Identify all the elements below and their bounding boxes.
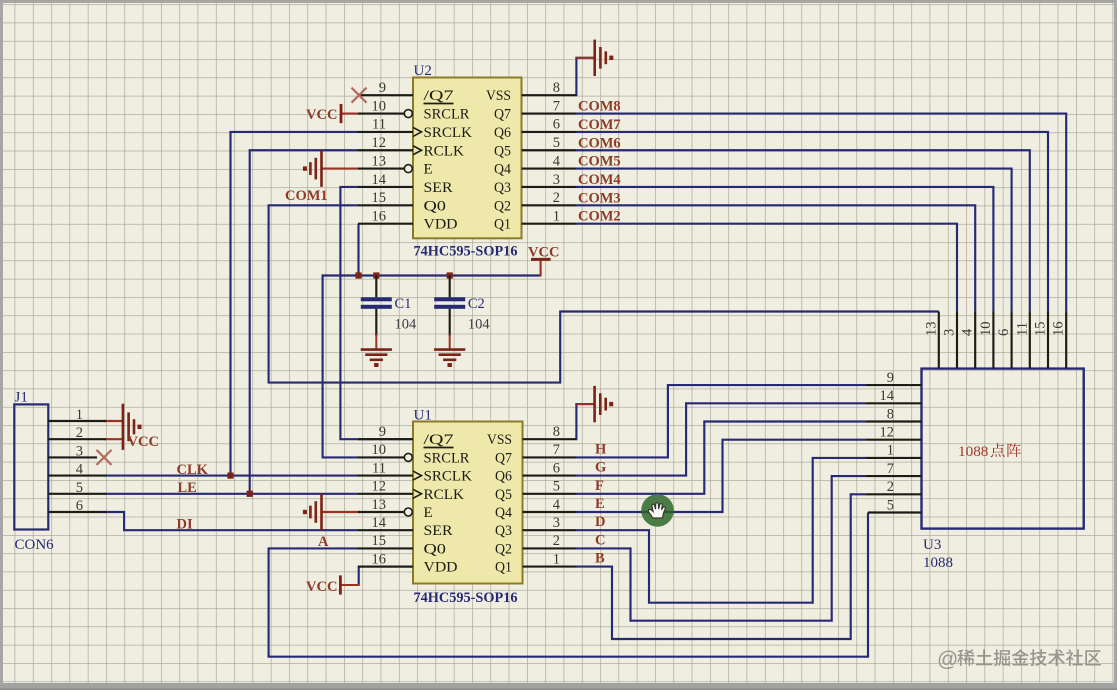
svg-text:15: 15 <box>372 190 387 206</box>
wire H net: U1 Q7 to matrix pin 9 <box>576 385 866 457</box>
svg-text:CLK: CLK <box>177 462 209 478</box>
wire COM8 net: U2 Q7 to matrix <box>576 114 1066 312</box>
svg-text:E: E <box>424 505 433 521</box>
wire G net: U1 Q6 to matrix pin 14 <box>576 403 866 475</box>
capacitor C1 plates <box>361 297 392 301</box>
svg-text:3: 3 <box>553 172 560 188</box>
pan hand cursor <box>641 494 674 527</box>
svg-text:SER: SER <box>424 180 453 196</box>
U3 left pin 1 stub <box>866 457 922 459</box>
wire F net: U1 Q5 to matrix pin 8 <box>576 422 866 494</box>
svg-text:E: E <box>595 496 605 512</box>
U3 top pin 16 stub <box>1065 312 1067 369</box>
svg-text:VSS: VSS <box>486 88 511 104</box>
U2 pin 7 (Q7) stub <box>522 112 577 114</box>
wire U2 E to ground symbol <box>322 168 360 170</box>
U1 pin 9 (/Q7) stub <box>358 438 413 440</box>
no-connect X on J1 pin 3 <box>97 450 112 465</box>
wire DI net: J1 pin6 to U1 SER <box>105 512 358 530</box>
svg-text:Q4: Q4 <box>494 162 511 178</box>
svg-text:COM2: COM2 <box>578 209 621 225</box>
svg-text:9: 9 <box>379 80 386 96</box>
wire J1 pin2 to VCC bar <box>104 438 123 440</box>
U1 pin 7 (Q7) stub <box>523 456 577 458</box>
wire COM5 net: U2 Q4 to matrix <box>576 169 1012 312</box>
svg-text:Q3: Q3 <box>494 180 511 196</box>
U1 pin 13 (E) stub <box>358 511 404 513</box>
U2 pin 9 (/Q7) stub <box>358 94 413 96</box>
svg-text:Q5: Q5 <box>495 487 512 503</box>
U3 left pin 5 stub <box>868 511 922 513</box>
U2 pin 8 (VSS) stub <box>522 94 577 96</box>
U1 pin 16 (VDD) stub <box>358 566 413 568</box>
svg-text:14: 14 <box>372 515 387 531</box>
U2 pin 15 (Q0) stub <box>358 204 413 206</box>
wire COM2 net: U2 Q1 to matrix <box>576 224 957 312</box>
svg-text:8: 8 <box>887 406 894 422</box>
svg-text:J1: J1 <box>15 390 28 406</box>
svg-text:7: 7 <box>553 442 560 458</box>
svg-text:15: 15 <box>1033 322 1049 337</box>
svg-text:13: 13 <box>372 497 387 513</box>
svg-text:U3: U3 <box>923 537 941 553</box>
power symbol VCC at rail <box>531 258 551 261</box>
U2 pin 3 (Q3) stub <box>522 186 577 188</box>
svg-text:2: 2 <box>553 190 560 206</box>
J1 pin 6 stub <box>48 511 106 513</box>
junction CLK <box>227 473 233 479</box>
svg-text:RCLK: RCLK <box>424 487 465 503</box>
U3 left pin 9 stub <box>866 384 922 386</box>
svg-text:5: 5 <box>76 480 83 496</box>
svg-text:SRCLR: SRCLR <box>424 450 470 466</box>
wire VCC symbol to rail <box>540 259 542 276</box>
U1 pin 14 (SER) stub <box>358 529 413 531</box>
U1 pin 3 (Q3) stub <box>523 529 577 531</box>
wire A net: U1 Q0 to matrix pin 5 <box>269 513 868 657</box>
svg-text:6: 6 <box>76 498 83 514</box>
capacitor C1 lead top <box>375 276 377 298</box>
svg-text:G: G <box>595 460 606 476</box>
ground symbol under C1 <box>361 348 392 351</box>
window border top <box>0 0 1117 3</box>
U3 left pin 12 stub <box>866 439 922 441</box>
svg-text:VDD: VDD <box>424 560 458 576</box>
svg-text:10: 10 <box>372 442 387 458</box>
svg-text:7: 7 <box>553 98 560 114</box>
svg-text:B: B <box>595 551 605 567</box>
U3 top pin 10 stub <box>992 312 994 369</box>
power symbol VCC at J1 pins 1-2 <box>122 404 125 450</box>
svg-text:CON6: CON6 <box>15 537 55 553</box>
U2 pin 2 (Q2) stub <box>522 204 577 206</box>
U1 clock triangle pin 12 <box>413 489 422 498</box>
capacitor C2 lead top <box>449 276 451 298</box>
wire CLK net: J1 pin4 to U1 SRCLK <box>105 475 358 477</box>
svg-text:6: 6 <box>553 460 560 476</box>
svg-text:6: 6 <box>996 329 1012 336</box>
svg-text:VCC: VCC <box>306 107 337 123</box>
connector J1 CON6 body <box>14 404 48 529</box>
svg-text:12: 12 <box>880 425 895 441</box>
svg-text:Q0: Q0 <box>424 541 447 557</box>
svg-text:VSS: VSS <box>487 432 512 448</box>
wire COM3 net: U2 Q2 to matrix <box>576 205 975 311</box>
svg-text:Q4: Q4 <box>495 505 512 521</box>
svg-text:16: 16 <box>372 551 387 567</box>
svg-text:1: 1 <box>887 443 894 459</box>
U1 pin 11 (SRCLK) stub <box>358 475 413 477</box>
U1 pin 15 (Q0) stub <box>358 547 413 549</box>
wire D net: U1 Q3 to matrix pin 1 <box>576 458 866 603</box>
window border left <box>0 0 3 690</box>
svg-text:/Q7: /Q7 <box>424 88 455 104</box>
svg-text:7: 7 <box>887 461 894 477</box>
svg-text:SRCLK: SRCLK <box>424 125 473 141</box>
U2 pin 6 (Q6) stub <box>522 131 577 133</box>
power symbol VCC at U1 VDD <box>339 575 342 594</box>
svg-text:1: 1 <box>553 551 560 567</box>
svg-text:1088: 1088 <box>923 555 953 571</box>
svg-text:VCC: VCC <box>128 434 159 450</box>
U3 top pin 3 stub <box>956 312 958 369</box>
svg-text:VCC: VCC <box>306 579 337 595</box>
svg-text:RCLK: RCLK <box>424 143 465 159</box>
U1 clock triangle pin 11 <box>413 471 422 480</box>
svg-text:11: 11 <box>372 117 386 133</box>
svg-text:12: 12 <box>372 479 387 495</box>
dot matrix U3 1088 body <box>922 369 1084 529</box>
svg-text:12: 12 <box>372 135 387 151</box>
svg-text:COM3: COM3 <box>578 190 621 206</box>
U1 pin 8 (VSS) stub <box>523 438 577 440</box>
svg-text:9: 9 <box>379 424 386 440</box>
svg-text:@: @ <box>937 648 958 671</box>
U1 pin 1 (Q1) stub <box>523 566 577 568</box>
svg-text:3: 3 <box>76 443 83 459</box>
svg-text:14: 14 <box>372 172 387 188</box>
junction VCC rail / C2 <box>447 272 453 278</box>
svg-text:8: 8 <box>553 80 560 96</box>
svg-text:Q7: Q7 <box>495 450 512 466</box>
U2 pin 11 (SRCLK) stub <box>358 131 413 133</box>
svg-text:4: 4 <box>553 497 561 513</box>
svg-text:Q1: Q1 <box>495 560 512 576</box>
wire COM6 net: U2 Q5 to matrix <box>576 150 1030 311</box>
svg-text:11: 11 <box>1014 322 1030 336</box>
svg-text:9: 9 <box>887 370 894 386</box>
J1 pin 4 stub <box>48 475 106 477</box>
svg-text:10: 10 <box>978 322 994 337</box>
wire E net: U1 Q4 to matrix pin 12 <box>576 440 866 512</box>
U2 pin 4 (Q4) stub <box>522 168 577 170</box>
wire COM7 net: U2 Q6 to matrix <box>576 132 1048 312</box>
svg-text:Q1: Q1 <box>494 217 511 233</box>
U1 pin 6 (Q6) stub <box>523 475 577 477</box>
U2 pin 16 (VDD) stub <box>358 223 413 225</box>
svg-text:/Q7: /Q7 <box>424 432 455 448</box>
svg-text:8: 8 <box>553 424 560 440</box>
svg-text:3: 3 <box>553 515 560 531</box>
power symbol VCC at U2 SRCLR <box>340 104 343 123</box>
svg-text:2: 2 <box>76 425 83 441</box>
wire COM1 net: U2 Q0 to matrix pin 13 <box>269 205 939 382</box>
svg-text:Q2: Q2 <box>494 198 511 214</box>
wire U1 E to ground symbol <box>322 511 360 513</box>
svg-text:COM1: COM1 <box>285 188 328 204</box>
wire B net: U1 Q1 to matrix pin 2 <box>576 494 866 639</box>
svg-text:5: 5 <box>887 497 894 513</box>
svg-text:Q7: Q7 <box>494 107 511 123</box>
ground symbol at U1 VSS <box>593 386 596 422</box>
U3 left pin 7 stub <box>866 475 922 477</box>
U2 pin 12 (RCLK) stub <box>358 149 413 151</box>
U1 pin 5 (Q5) stub <box>523 493 577 495</box>
svg-text:Q5: Q5 <box>494 143 511 159</box>
svg-text:C2: C2 <box>468 296 485 312</box>
svg-text:SRCLR: SRCLR <box>424 107 470 123</box>
U2 pin 14 (SER) stub <box>358 186 413 188</box>
U2 clock triangle pin 11 <box>413 127 422 136</box>
J1 pin 5 stub <box>48 493 106 495</box>
J1 pin 2 stub <box>48 438 106 440</box>
svg-text:10: 10 <box>372 98 387 114</box>
svg-text:4: 4 <box>960 328 976 336</box>
svg-text:VCC: VCC <box>528 245 559 261</box>
svg-text:74HC595-SOP16: 74HC595-SOP16 <box>414 244 518 260</box>
svg-text:C1: C1 <box>395 296 412 312</box>
shift register U1 74HC595-SOP16 body <box>413 422 523 584</box>
svg-text:COM7: COM7 <box>578 117 621 133</box>
svg-text:1: 1 <box>553 208 560 224</box>
svg-text:5: 5 <box>553 479 560 495</box>
svg-text:104: 104 <box>468 317 491 333</box>
svg-text:Q2: Q2 <box>495 541 512 557</box>
U3 top pin 6 stub <box>1011 312 1013 369</box>
U2 pin 10 (SRCLR) stub <box>358 112 404 114</box>
wire C net: U1 Q2 to matrix pin 7 <box>576 476 866 621</box>
U3 left pin 14 stub <box>866 402 922 404</box>
svg-text:6: 6 <box>553 117 560 133</box>
svg-text:3: 3 <box>942 329 958 336</box>
U2 pin 13 (E) stub <box>358 168 404 170</box>
svg-text:1088: 1088 <box>958 443 989 460</box>
U2 clock triangle pin 12 <box>413 146 422 155</box>
U3 top pin 13 stub <box>938 312 940 369</box>
wire U1 VSS to ground <box>576 404 595 439</box>
svg-text:COM4: COM4 <box>578 172 621 188</box>
svg-text:16: 16 <box>1051 322 1067 337</box>
svg-text:13: 13 <box>372 153 387 169</box>
svg-text:DI: DI <box>177 517 193 533</box>
svg-text:14: 14 <box>880 388 895 404</box>
svg-text:Q0: Q0 <box>424 198 447 214</box>
svg-text:16: 16 <box>372 208 387 224</box>
U2 pin 1 (Q1) stub <box>522 223 577 225</box>
wire VCC rail (U2 VDD, C1, C2, U1 SRCLR) <box>323 276 541 458</box>
svg-text:Q6: Q6 <box>494 125 511 141</box>
capacitor C2 lead bottom <box>449 309 451 336</box>
J1 pin 3 stub <box>48 456 97 458</box>
U1 pin 2 (Q2) stub <box>523 547 577 549</box>
svg-text:2: 2 <box>553 533 560 549</box>
capacitor C2 plates <box>434 297 465 301</box>
U1 pin 4 (Q4) stub <box>523 511 577 513</box>
wire J1 pin1 to VCC bar <box>104 420 123 422</box>
wire LE riser to U2 RCLK <box>250 150 358 494</box>
ground symbol under C2 <box>434 348 465 351</box>
svg-text:D: D <box>595 514 605 530</box>
svg-text:15: 15 <box>372 533 387 549</box>
junction VCC rail / C1 <box>373 272 379 278</box>
svg-text:1: 1 <box>76 407 83 423</box>
wire U1 VDD to VCC <box>359 567 413 585</box>
svg-text:H: H <box>595 441 607 457</box>
U3 left pin 2 stub <box>866 493 922 495</box>
shift register U2 74HC595-SOP16 body <box>413 78 522 239</box>
U3 top pin 11 stub <box>1029 312 1031 369</box>
wire CLK riser to U2 SRCLK <box>231 132 359 476</box>
svg-text:C: C <box>595 532 605 548</box>
wire U2 VSS to ground <box>576 58 595 95</box>
svg-text:104: 104 <box>395 317 418 333</box>
window border bottom <box>0 683 1117 690</box>
svg-text:SRCLK: SRCLK <box>424 469 473 485</box>
svg-text:E: E <box>424 162 433 178</box>
svg-text:A: A <box>318 534 329 550</box>
svg-text:F: F <box>595 478 604 494</box>
svg-text:COM5: COM5 <box>578 154 621 170</box>
wire LE net: J1 pin5 to U1 RCLK <box>105 493 358 495</box>
capacitor C1 lead bottom <box>375 309 377 336</box>
svg-text:4: 4 <box>76 462 84 478</box>
svg-text:Q6: Q6 <box>495 469 512 485</box>
window border right <box>1114 0 1117 690</box>
ground symbol at U2 E <box>320 150 323 186</box>
U3 left pin 8 stub <box>866 420 922 422</box>
svg-text:SER: SER <box>424 523 453 539</box>
ground symbol at U1 E <box>320 494 323 530</box>
svg-text:5: 5 <box>553 135 560 151</box>
junction VCC rail / U2 VDD <box>355 272 361 278</box>
wire U2 VDD riser to VCC rail <box>357 224 359 276</box>
junction LE <box>247 491 253 497</box>
svg-text:VDD: VDD <box>424 217 458 233</box>
svg-text:U1: U1 <box>414 408 432 424</box>
U1 pin 12 (RCLK) stub <box>358 493 413 495</box>
wire COM4 net: U2 Q3 to matrix <box>576 187 993 312</box>
svg-text:LE: LE <box>178 480 197 496</box>
J1 pin 1 stub <box>48 420 106 422</box>
svg-text:U2: U2 <box>414 63 432 79</box>
U3 top pin 4 stub <box>974 312 976 369</box>
no-connect X on U2 pin 9 <box>352 88 367 103</box>
wire U2 SRCLR to VCC symbol <box>341 112 360 114</box>
svg-text:COM8: COM8 <box>578 99 621 115</box>
svg-text:2: 2 <box>887 479 894 495</box>
wire U1 /Q7 to U2 SER (cascade) <box>340 187 413 439</box>
svg-text:74HC595-SOP16: 74HC595-SOP16 <box>414 590 518 606</box>
svg-text:13: 13 <box>923 322 939 337</box>
U1 pin 10 (SRCLR) stub <box>358 456 404 458</box>
svg-text:4: 4 <box>553 153 561 169</box>
U3 top pin 15 stub <box>1047 312 1049 369</box>
svg-text:Q3: Q3 <box>495 523 512 539</box>
U2 pin 5 (Q5) stub <box>522 149 577 151</box>
svg-text:11: 11 <box>372 460 386 476</box>
ground symbol at U2 VSS <box>593 40 596 76</box>
svg-text:COM6: COM6 <box>578 135 621 151</box>
